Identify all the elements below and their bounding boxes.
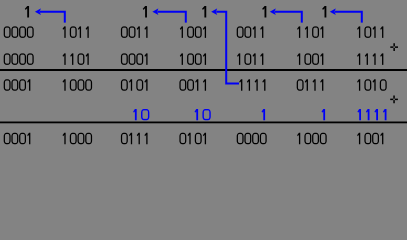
operand row 2 group 5: 1011 bbox=[237, 53, 263, 65]
final result row group 5: 0000 bbox=[237, 133, 266, 143]
blue carry value 10 bbox=[133, 109, 149, 120]
carry 1 over group7 bbox=[322, 6, 326, 18]
sum line 2 bbox=[0, 122, 407, 124]
blue carry value 10 bbox=[195, 109, 211, 120]
operand row 2 group 1: 0000 bbox=[4, 54, 33, 64]
carry 1 over group5 bbox=[202, 6, 206, 18]
intermediate sum row group 6: 0111 bbox=[297, 79, 323, 91]
intermediate sum row group 5: 1111 bbox=[239, 79, 265, 91]
intermediate sum row group 1: 0001 bbox=[4, 79, 30, 91]
final result row group 6: 1000 bbox=[297, 133, 326, 145]
operand row 2 group 2: 1101 bbox=[63, 53, 89, 65]
final result row group 4: 0101 bbox=[180, 133, 206, 145]
carry arrow 5 (group7 to carry 1) bbox=[335, 12, 362, 23]
operand row 1 group 5: 0011 bbox=[237, 26, 263, 38]
operand row 1 group 2: 1011 bbox=[63, 26, 89, 38]
final result row group 3: 0111 bbox=[122, 133, 148, 145]
carry arrow 4 (group6 to carry 1) bbox=[275, 12, 302, 23]
blue carry value 1111 bbox=[357, 109, 386, 120]
final result row group 7: 1001 bbox=[357, 133, 383, 145]
plus sign lower bbox=[390, 96, 398, 104]
operand row 2 group 6: 1001 bbox=[297, 53, 323, 65]
operand row 2 group 4: 1001 bbox=[180, 53, 206, 65]
operand row 1 group 4: 1001 bbox=[180, 26, 206, 38]
intermediate sum row group 3: 0101 bbox=[122, 79, 148, 91]
carry 1 over group2 bbox=[25, 6, 29, 18]
blue carry value 1 bbox=[262, 109, 266, 120]
long carry arrow 3 (low word overflow to carry of group4) bbox=[216, 12, 239, 84]
intermediate sum row group 2: 1000 bbox=[63, 79, 92, 91]
operand row 2 group 7: 1111 bbox=[357, 53, 383, 65]
plus sign upper bbox=[390, 43, 398, 51]
operand row 2 group 3: 0001 bbox=[122, 53, 148, 65]
operand row 1 group 1: 0000 bbox=[4, 27, 33, 37]
carry arrow 1 (group2 to carry 1) bbox=[40, 12, 65, 23]
sum line 1 bbox=[0, 69, 407, 71]
operand row 1 group 6: 1101 bbox=[297, 26, 323, 38]
intermediate sum row group 4: 0011 bbox=[180, 79, 206, 91]
final result row group 1: 0001 bbox=[4, 133, 30, 145]
operand row 1 group 3: 0011 bbox=[122, 26, 148, 38]
intermediate sum row group 7: 1010 bbox=[357, 79, 386, 91]
operand row 1 group 7: 1011 bbox=[357, 26, 383, 38]
blue carry value 1 bbox=[322, 109, 326, 120]
carry 1 over group4 bbox=[143, 6, 147, 18]
carry arrow 2 (group4 to carry 1) bbox=[158, 12, 186, 23]
carry 1 over group6 bbox=[262, 6, 266, 18]
final result row group 2: 1000 bbox=[63, 133, 92, 145]
